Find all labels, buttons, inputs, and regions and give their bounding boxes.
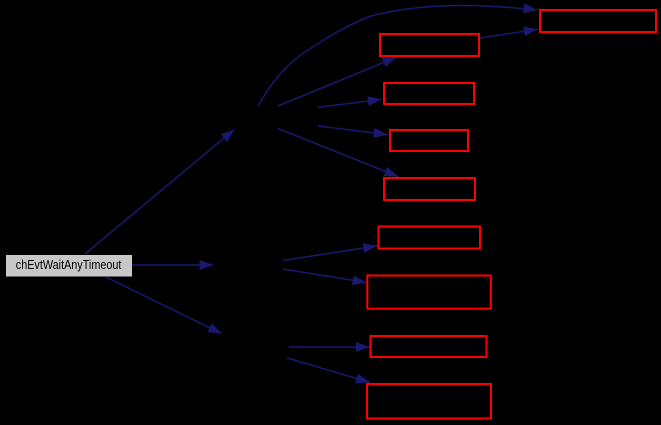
wire curved edge hidden node A to red node R1 [258, 5, 538, 106]
red node R1 top right [540, 10, 656, 32]
wire edge hidden node C to red node R9 [287, 358, 370, 383]
wire edge red node R2 to red node R1 [480, 29, 538, 38]
red node R4 [390, 130, 468, 151]
wire edge chEvtWaitAnyTimeout to hidden node C [106, 277, 222, 334]
red node R7 (two-line) [367, 276, 491, 309]
wire edge hidden node A to red node R3 [317, 99, 382, 107]
wire edge hidden node A to red node R5 [278, 129, 398, 177]
wire edge hidden node A to red node R2 [278, 57, 397, 106]
wire edge hidden node B to red node R7 [283, 269, 367, 283]
red node R6 [379, 227, 481, 249]
red node R2 [380, 34, 479, 56]
red node R9 (two-line) [367, 384, 491, 419]
wire edge hidden node B to red node R6 [283, 246, 377, 261]
red node R5 [384, 178, 475, 200]
wire edge hidden node A to red node R4 [318, 126, 388, 135]
svg-text:chEvtWaitAnyTimeout: chEvtWaitAnyTimeout [16, 257, 122, 272]
wire edge hidden node C to red node R8 [289, 346, 370, 348]
wire edge chEvtWaitAnyTimeout to hidden node B [132, 264, 214, 266]
red node R3 [384, 83, 474, 104]
node chEvtWaitAnyTimeout (caller, grey) [6, 255, 132, 277]
red node R8 [371, 336, 487, 357]
wire edge chEvtWaitAnyTimeout to hidden node A [85, 129, 235, 254]
